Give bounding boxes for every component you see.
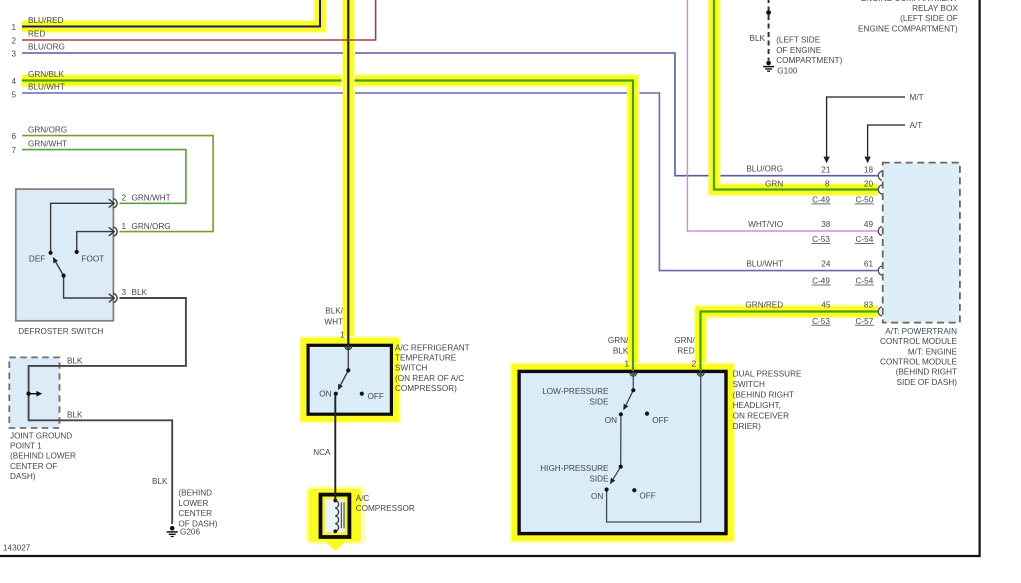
wire GRN/WHT row 7 to defroster pin 2: [22, 150, 186, 204]
svg-text:HEADLIGHT,: HEADLIGHT,: [733, 401, 781, 410]
wire BLK defroster pin 3 to joint ground to G206: [29, 298, 186, 524]
wire pin1 to pivot: [347, 345, 349, 370]
svg-text:C-50: C-50: [856, 196, 874, 205]
wire BLU/WHT row 5 to ECM pin 24/61: [22, 93, 878, 271]
wire BLK/WHT vertical to temp switch: [347, 0, 349, 345]
svg-text:3: 3: [11, 50, 16, 59]
low-pressure lever: [626, 390, 633, 405]
svg-text:SIDE: SIDE: [589, 398, 609, 407]
svg-text:1: 1: [11, 23, 16, 32]
svg-text:CONTROL MODULE: CONTROL MODULE: [880, 358, 958, 367]
svg-text:OFF: OFF: [368, 392, 384, 401]
svg-text:RED: RED: [677, 346, 694, 355]
wire GRN/RED dual pressure pin 2 to ECM pin 45/83: [701, 312, 878, 372]
svg-text:TEMPERATURE: TEMPERATURE: [395, 354, 457, 363]
svg-text:DUAL PRESSURE: DUAL PRESSURE: [733, 369, 802, 378]
svg-text:24: 24: [821, 260, 831, 269]
svg-text:COMPRESSOR: COMPRESSOR: [356, 504, 415, 513]
highlight GRN/RED wire dual pressure to ECM: [701, 312, 879, 370]
contact FOOT: [75, 250, 79, 254]
svg-text:CONTROL MODULE: CONTROL MODULE: [880, 337, 958, 346]
wire lever to pin 3: [64, 276, 114, 298]
wire ON2 to pin 2: [607, 372, 701, 522]
switch lever: [56, 262, 64, 275]
svg-text:BLU/RED: BLU/RED: [28, 16, 64, 25]
svg-text:49: 49: [864, 220, 874, 229]
svg-text:GRN/ORG: GRN/ORG: [132, 222, 171, 231]
svg-text:BLK: BLK: [67, 411, 83, 420]
svg-text:1: 1: [624, 360, 629, 369]
svg-text:BLU/WHT: BLU/WHT: [746, 260, 783, 269]
svg-text:WHT/VIO: WHT/VIO: [748, 220, 783, 229]
dual pressure switch box: [519, 371, 726, 533]
A/C compressor box: [321, 495, 350, 537]
temp switch lever: [341, 370, 349, 385]
svg-text:2: 2: [11, 37, 16, 46]
svg-text:A/C: A/C: [356, 494, 370, 503]
svg-text:BLK: BLK: [132, 288, 148, 297]
svg-text:BLU/ORG: BLU/ORG: [28, 43, 65, 52]
svg-text:SWITCH: SWITCH: [395, 364, 427, 373]
svg-text:COMPRESSOR): COMPRESSOR): [395, 384, 457, 393]
svg-text:1: 1: [340, 331, 345, 340]
wire NCA: ON contact to compressor coil: [334, 394, 336, 500]
svg-text:C-49: C-49: [812, 277, 830, 286]
lever pivot dot: [62, 274, 66, 278]
svg-text:20: 20: [864, 180, 874, 189]
svg-text:G206: G206: [180, 527, 200, 536]
svg-text:A/T: A/T: [910, 121, 923, 130]
svg-text:DASH): DASH): [10, 472, 36, 481]
svg-text:DEFROSTER SWITCH: DEFROSTER SWITCH: [18, 327, 103, 336]
svg-text:CENTER: CENTER: [178, 509, 212, 518]
svg-text:OFF: OFF: [639, 491, 655, 500]
svg-text:GRN/WHT: GRN/WHT: [28, 139, 67, 148]
svg-text:SWITCH: SWITCH: [733, 380, 765, 389]
svg-text:ENGINE COMPARTMENT): ENGINE COMPARTMENT): [858, 24, 958, 33]
highlight arrow below compressor: [327, 541, 344, 551]
svg-text:OF ENGINE: OF ENGINE: [776, 46, 822, 55]
svg-text:4: 4: [11, 77, 16, 86]
svg-text:(BEHIND RIGHT: (BEHIND RIGHT: [896, 368, 957, 377]
svg-text:RELAY BOX: RELAY BOX: [912, 4, 958, 13]
frame right border: [978, 0, 980, 556]
wire ON1 to high-pressure pivot: [620, 414, 622, 466]
junction dot with arrow: [26, 392, 30, 396]
svg-text:FOOT: FOOT: [82, 254, 105, 263]
svg-text:1: 1: [122, 222, 127, 231]
contact DEF: [49, 251, 53, 255]
svg-text:(BEHIND: (BEHIND: [178, 489, 212, 498]
contact OFF high: [632, 488, 636, 492]
svg-text:ENGINE COMPARTMENT: ENGINE COMPARTMENT: [861, 0, 958, 3]
svg-text:38: 38: [821, 220, 831, 229]
A/C refrigerant temperature switch box: [308, 345, 391, 414]
svg-text:DEF: DEF: [29, 254, 45, 263]
svg-text:NCA: NCA: [313, 448, 331, 457]
pin 1 entry connector: [345, 346, 352, 350]
pivot dot: [346, 368, 350, 372]
svg-text:BLK/: BLK/: [325, 306, 343, 315]
wire DEF contact to pin 2: [51, 203, 114, 253]
svg-text:HIGH-PRESSURE: HIGH-PRESSURE: [540, 464, 609, 473]
svg-text:GRN/: GRN/: [608, 336, 629, 345]
svg-text:83: 83: [864, 301, 874, 310]
svg-text:GRN: GRN: [765, 180, 783, 189]
wire pin 1 to low-pressure pivot: [632, 372, 634, 390]
wire GRN/BLK row 4 to dual pressure pin 1: [22, 81, 633, 372]
svg-text:6: 6: [11, 132, 16, 141]
svg-text:ON: ON: [319, 389, 331, 398]
contact ON: [334, 392, 338, 396]
svg-text:DRIER): DRIER): [733, 422, 761, 431]
svg-text:GRN/RED: GRN/RED: [745, 301, 783, 310]
svg-text:BLK: BLK: [67, 356, 83, 365]
svg-text:A/C REFRIGERANT: A/C REFRIGERANT: [395, 344, 470, 353]
low-pressure pivot dot: [631, 388, 635, 392]
svg-text:RED: RED: [28, 30, 45, 39]
lever arrowhead: [53, 257, 58, 264]
svg-text:BLK: BLK: [613, 346, 629, 355]
high-pressure pivot dot: [619, 465, 623, 469]
high-pressure lever: [613, 467, 621, 479]
svg-text:G100: G100: [777, 67, 797, 76]
svg-text:GRN/WHT: GRN/WHT: [132, 194, 171, 203]
svg-text:M/T: M/T: [910, 93, 924, 102]
svg-text:WHT: WHT: [324, 317, 343, 326]
svg-text:C-53: C-53: [812, 235, 830, 244]
svg-text:SIDE OF DASH): SIDE OF DASH): [896, 378, 957, 387]
svg-text:LOWER: LOWER: [178, 499, 208, 508]
svg-text:C-54: C-54: [856, 277, 874, 286]
svg-text:3: 3: [122, 288, 127, 297]
contact OFF: [360, 392, 364, 396]
M/T arrow to pin 21: [827, 97, 905, 157]
svg-text:ON RECEIVER: ON RECEIVER: [733, 412, 790, 421]
svg-text:GRN/: GRN/: [674, 336, 695, 345]
svg-text:45: 45: [821, 301, 831, 310]
highlight glow around dual pressure switch: [516, 368, 729, 537]
svg-text:A/T: POWERTRAIN: A/T: POWERTRAIN: [885, 327, 957, 336]
svg-text:(LEFT SIDE: (LEFT SIDE: [776, 36, 821, 45]
joint ground point 1 box: [9, 357, 59, 428]
svg-text:COMPARTMENT): COMPARTMENT): [776, 56, 842, 65]
svg-text:GRN/BLK: GRN/BLK: [28, 70, 64, 79]
svg-text:8: 8: [825, 180, 830, 189]
defroster pin 3 connector: [109, 293, 117, 302]
wire GRN to ECM pin 8/20: [714, 0, 878, 190]
svg-text:POINT 1: POINT 1: [10, 442, 42, 451]
connector C-49/C-50 pin 8/20: [878, 185, 882, 194]
svg-text:C-54: C-54: [856, 235, 874, 244]
wire WHT/VIO to ECM pin 38/49: [687, 0, 877, 231]
svg-text:61: 61: [864, 260, 874, 269]
svg-text:ON: ON: [591, 492, 603, 501]
connector C-53/C-54 pin 38/49: [878, 226, 882, 235]
wire BLK dashed to G100: [768, 0, 770, 61]
highlight GRN wire to ECM: [714, 0, 878, 190]
svg-text:2: 2: [122, 194, 127, 203]
svg-text:21: 21: [821, 166, 831, 175]
highlight BLU/RED row 1: [22, 0, 321, 27]
svg-text:SIDE: SIDE: [589, 474, 609, 483]
pin 1 entry connector: [630, 372, 637, 376]
svg-text:18: 18: [864, 166, 874, 175]
svg-text:M/T: ENGINE: M/T: ENGINE: [908, 347, 958, 356]
highlight glow around A/C refrigerant temperature switch: [305, 342, 395, 417]
svg-text:(ON REAR OF A/C: (ON REAR OF A/C: [395, 374, 464, 383]
svg-text:2: 2: [692, 360, 697, 369]
svg-text:OFF: OFF: [652, 416, 668, 425]
highlight BLK/WHT vertical wire: [342, 0, 356, 342]
svg-text:ON: ON: [605, 416, 617, 425]
highlight glow around A/C compressor: [307, 488, 364, 543]
svg-text:(BEHIND RIGHT: (BEHIND RIGHT: [733, 391, 794, 400]
svg-text:5: 5: [11, 91, 16, 100]
connector C-49/C-50 pin 21/18: [878, 171, 882, 180]
contact ON high: [605, 487, 609, 491]
svg-text:BLK: BLK: [152, 477, 168, 486]
wire FOOT contact to pin 1: [77, 232, 114, 252]
svg-text:JOINT GROUND: JOINT GROUND: [10, 431, 72, 440]
contact OFF low: [645, 412, 649, 416]
wire GRN/ORG row 6 to defroster pin 1: [22, 136, 213, 232]
svg-text:LOW-PRESSURE: LOW-PRESSURE: [542, 387, 609, 396]
defroster pin 2 connector: [109, 199, 117, 208]
svg-text:C-53: C-53: [812, 317, 830, 326]
svg-text:C-57: C-57: [856, 317, 874, 326]
A/T arrow to pin 18: [868, 125, 905, 157]
contact ON low: [619, 412, 623, 416]
wire BLU/RED row 1: [22, 0, 320, 27]
wire RED row 2: [22, 0, 376, 40]
svg-text:BLU/ORG: BLU/ORG: [746, 165, 783, 174]
svg-text:7: 7: [11, 146, 16, 155]
svg-text:BLK: BLK: [750, 34, 766, 43]
svg-text:(LEFT SIDE OF: (LEFT SIDE OF: [900, 14, 958, 23]
defroster pin 1 connector: [109, 227, 117, 236]
svg-text:GRN/ORG: GRN/ORG: [28, 125, 67, 134]
svg-text:BLU/WHT: BLU/WHT: [28, 83, 65, 92]
svg-text:C-49: C-49: [812, 196, 830, 205]
connector C-53/C-57 pin 45/83: [878, 307, 882, 316]
frame bottom border: [0, 555, 981, 557]
svg-text:CENTER OF: CENTER OF: [10, 462, 57, 471]
pin 2 entry connector: [697, 372, 704, 376]
highlight GRN/BLK row 4 to dual pressure switch: [22, 81, 634, 370]
A/T-M/T control module box: [883, 163, 960, 323]
wire BLU/ORG row 3 to ECM pin 21/18: [22, 53, 878, 176]
svg-text:143027: 143027: [3, 544, 31, 553]
svg-text:(BEHIND LOWER: (BEHIND LOWER: [10, 452, 76, 461]
defroster switch box: [16, 189, 114, 321]
connector C-49/C-54 pin 24/61: [878, 266, 882, 275]
